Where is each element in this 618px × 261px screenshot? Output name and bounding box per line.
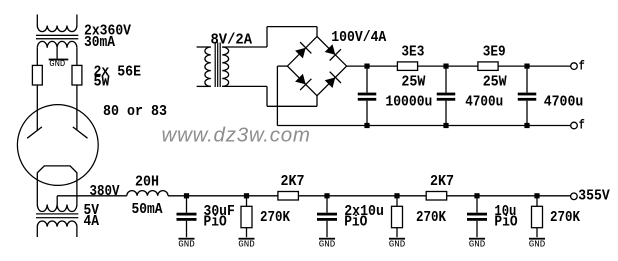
svg-text:5W: 5W: [94, 75, 110, 91]
svg-text:50mA: 50mA: [132, 202, 163, 218]
svg-text:GND: GND: [529, 239, 546, 250]
svg-text:270K: 270K: [416, 210, 446, 226]
svg-text:2K7: 2K7: [430, 174, 454, 190]
svg-text:355V: 355V: [578, 189, 610, 205]
svg-text:8V/2A: 8V/2A: [211, 33, 253, 49]
svg-text:30mA: 30mA: [84, 35, 115, 51]
svg-text:f: f: [579, 119, 585, 133]
svg-text:GND: GND: [178, 239, 195, 250]
svg-text:PiO: PiO: [204, 214, 227, 230]
svg-text:25W: 25W: [483, 75, 507, 91]
svg-text:GND: GND: [49, 58, 65, 69]
svg-text:PiO: PiO: [344, 214, 367, 230]
svg-text:380V: 380V: [90, 184, 120, 200]
svg-text:GND: GND: [319, 239, 336, 250]
svg-text:10000u: 10000u: [385, 95, 432, 111]
svg-text:GND: GND: [389, 239, 406, 250]
svg-text:3E9: 3E9: [483, 45, 506, 61]
svg-text:270K: 270K: [550, 210, 580, 226]
svg-text:PiO: PiO: [494, 214, 517, 230]
svg-text:270K: 270K: [260, 210, 290, 226]
svg-text:3E3: 3E3: [401, 45, 424, 61]
svg-text:4700u: 4700u: [544, 95, 584, 111]
svg-text:100V/4A: 100V/4A: [331, 30, 386, 46]
svg-text:2K7: 2K7: [281, 174, 305, 190]
svg-text:25W: 25W: [401, 75, 425, 91]
svg-text:f: f: [579, 59, 585, 73]
svg-text:4A: 4A: [84, 214, 100, 230]
svg-text:20H: 20H: [135, 175, 159, 191]
svg-text:GND: GND: [238, 239, 255, 250]
svg-text:4700u: 4700u: [465, 95, 503, 111]
svg-text:80 or 83: 80 or 83: [103, 104, 167, 120]
svg-text:www.dz3w.com: www.dz3w.com: [162, 123, 311, 146]
svg-text:GND: GND: [469, 239, 486, 250]
